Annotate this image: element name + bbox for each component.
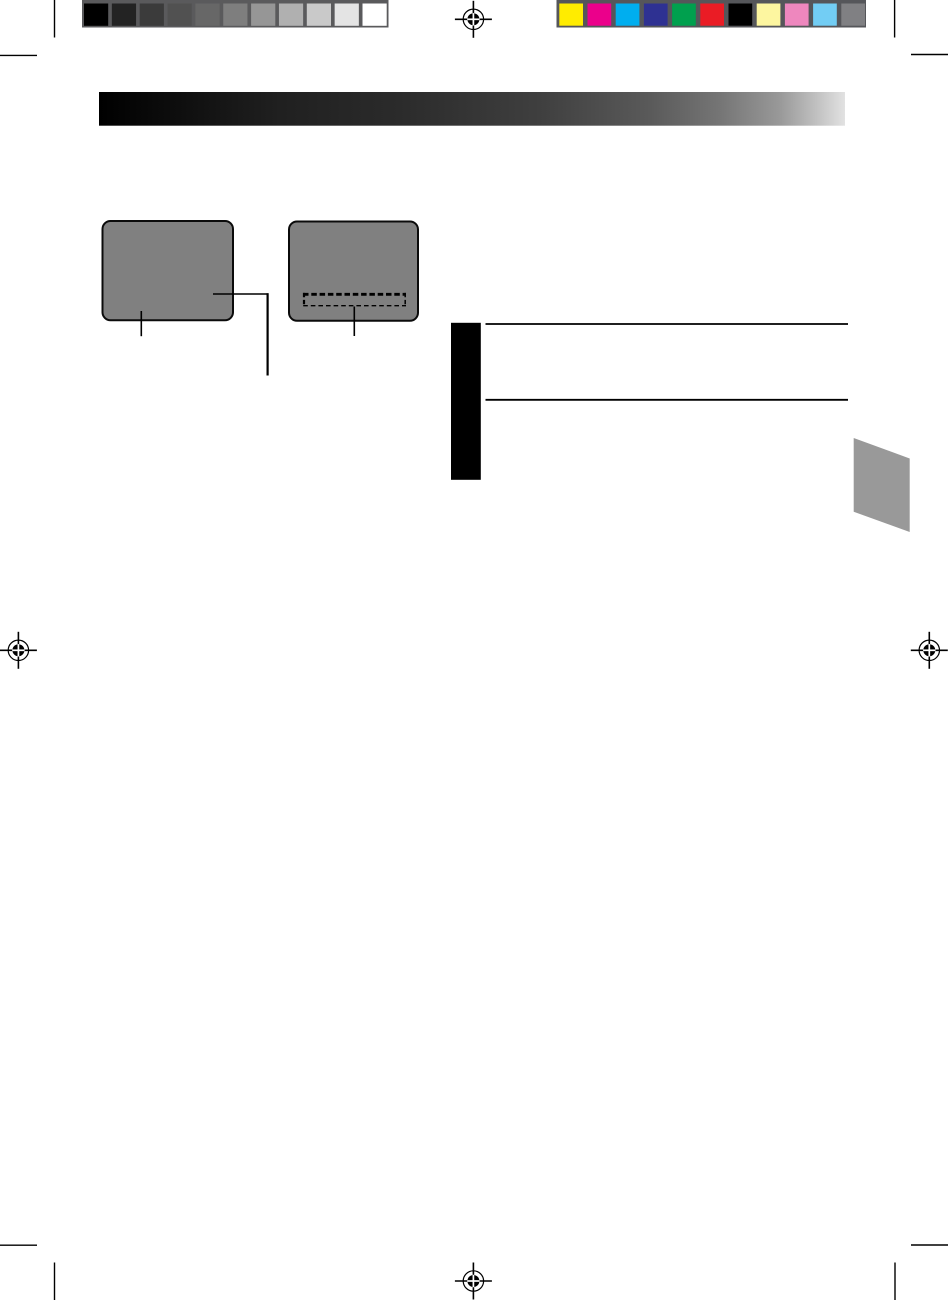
pointer tick below screen 1 <box>140 311 142 336</box>
colour calibration bar <box>557 0 867 28</box>
callout line from screen 1 (horizontal) <box>213 293 269 295</box>
pointer tick below dashed menu box <box>353 307 355 337</box>
black sidebar tab <box>451 323 481 480</box>
callout line from screen 1 (vertical) <box>267 293 269 375</box>
registration mark bottom center <box>455 1263 492 1300</box>
crop mark top-right horizontal <box>911 54 948 56</box>
crop mark bottom-right horizontal <box>911 1244 948 1246</box>
tone gradient bar <box>99 92 845 126</box>
rule line upper <box>486 323 849 325</box>
rule line lower <box>486 399 849 401</box>
crop mark top-right vertical <box>894 0 896 38</box>
crop mark top-left vertical <box>54 0 56 38</box>
registration mark top center <box>455 1 492 38</box>
crop mark top-left horizontal <box>0 54 37 56</box>
registration mark right middle <box>911 632 948 669</box>
registration mark left middle <box>0 632 37 669</box>
grayscale step wedge <box>82 0 389 28</box>
screen 2 (TV screen with menu bar) <box>289 222 418 321</box>
page-curl parallelogram <box>854 438 910 532</box>
crop mark bottom-left horizontal <box>0 1244 37 1246</box>
crop mark bottom-right vertical <box>894 1263 896 1300</box>
screen 1 (plain TV screen) <box>103 221 234 320</box>
dashed menu box inside screen 2 <box>303 293 406 307</box>
crop mark bottom-left vertical <box>54 1263 56 1300</box>
